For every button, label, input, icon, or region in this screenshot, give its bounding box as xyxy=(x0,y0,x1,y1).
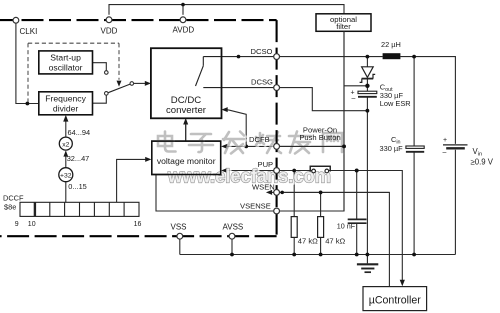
wire Vout rail redraw over watermark xyxy=(186,31,403,211)
svg-text:10: 10 xyxy=(28,221,36,228)
junction R2 on ground bus xyxy=(319,253,323,257)
svg-text:oscillator: oscillator xyxy=(49,63,83,73)
arrow register into voltage monitor xyxy=(145,157,151,162)
svg-text:converter: converter xyxy=(166,105,207,116)
arrow DCFB into voltage monitor xyxy=(221,144,227,149)
wire start-up oscillator output to switch throw xyxy=(93,63,107,71)
arrowheads xyxy=(63,81,405,287)
wire PUP internal to voltage monitor xyxy=(227,170,274,172)
svg-text:≥0.9 V: ≥0.9 V xyxy=(471,158,494,167)
wire Cout bottom to ground bus xyxy=(366,97,368,255)
svg-text:www.elecfans.com: www.elecfans.com xyxy=(167,165,331,187)
svg-text:x2: x2 xyxy=(62,141,69,148)
junction PUP with R1 xyxy=(292,169,296,173)
svg-text:divider: divider xyxy=(53,103,78,113)
wire x2 to frequency divider (up arrow) xyxy=(65,120,67,137)
wire DCSO from internal switch to inductor xyxy=(203,56,382,58)
wire voltage monitor to DC/DC redraw xyxy=(185,124,187,141)
svg-text:Push Button: Push Button xyxy=(299,133,340,142)
svg-text:10 nF: 10 nF xyxy=(337,221,356,230)
svg-text:DCSG: DCSG xyxy=(251,78,273,87)
pin VDD xyxy=(106,17,112,23)
svg-text:VDD: VDD xyxy=(101,26,118,35)
block optional filter xyxy=(316,14,371,32)
register DCCF $8e xyxy=(20,202,139,216)
junction CLKI wire with dashed box edge xyxy=(26,102,30,106)
wire AVSS pin drop xyxy=(231,239,233,255)
voltage monitor border redraw xyxy=(152,141,221,174)
wire VSENSE line redraw xyxy=(280,210,344,212)
wire CLKI down and into frequency divider xyxy=(16,23,39,103)
arrow WSEN stub xyxy=(266,190,272,195)
wire switch pole to DC/DC converter input xyxy=(134,82,147,84)
svg-text:32...47: 32...47 xyxy=(67,154,90,163)
junction DCSO node with diode xyxy=(366,55,370,59)
adder +32 xyxy=(59,168,73,182)
diode D1 (Schottky) xyxy=(360,67,376,83)
arrow into DC/DC left xyxy=(145,81,151,86)
inner dashed control box around oscillator blocks xyxy=(28,43,119,102)
svg-text:+: + xyxy=(443,137,447,144)
wire 10nF top to PUP line xyxy=(356,171,358,220)
wire DCFB external redraw xyxy=(280,145,344,147)
svg-text:CLKI: CLKI xyxy=(20,27,38,36)
wire WSEN line redraw xyxy=(280,191,390,193)
svg-text:VSENSE: VSENSE xyxy=(240,201,271,210)
resistor R2 47k xyxy=(318,217,324,238)
inductor L1 22uH xyxy=(383,53,401,59)
svg-text:DCSO: DCSO xyxy=(251,47,273,56)
block voltage monitor xyxy=(152,141,221,174)
svg-text:16: 16 xyxy=(134,221,142,228)
pin PUP xyxy=(274,168,280,174)
junction dots redraw xyxy=(281,145,359,195)
switch S2 clock select throws and pole xyxy=(105,71,134,96)
svg-text:WSEN: WSEN xyxy=(252,183,275,192)
watermark url xyxy=(167,165,332,188)
junction DCFB with Vout rail xyxy=(342,145,346,149)
junction DCSG with Cout bottom xyxy=(366,109,370,113)
ground xyxy=(357,255,378,273)
arrow into multiplier x2 xyxy=(63,151,68,157)
wire WSEN external to uController xyxy=(280,192,390,286)
svg-text:+32: +32 xyxy=(60,172,72,179)
wire resistor R2 top to WSEN line xyxy=(320,192,322,216)
svg-text:–: – xyxy=(352,95,356,102)
block DC/DC converter U1 xyxy=(151,48,222,118)
pin DCSO xyxy=(274,54,280,60)
internal switch of DC/DC xyxy=(196,57,221,88)
resistor R1 47k xyxy=(291,217,297,238)
capacitor Cout 330uF Low ESR xyxy=(358,91,377,97)
wire Cin bottom to ground bus xyxy=(413,152,415,255)
svg-text:filter: filter xyxy=(336,22,351,31)
pin AVSS xyxy=(229,233,235,239)
wire internal switch lever (open) xyxy=(196,66,204,86)
svg-text:Frequency: Frequency xyxy=(45,93,86,103)
battery Vin xyxy=(443,145,468,148)
wire VDD riser to top rail xyxy=(109,5,344,15)
wire optional filter output down to VSENSE (Vout rail) xyxy=(280,31,344,211)
junction Cin on ground bus xyxy=(412,253,416,257)
svg-text:Start-up: Start-up xyxy=(50,53,81,63)
pin AVDD xyxy=(180,17,186,23)
svg-text:47 kΩ: 47 kΩ xyxy=(298,236,318,245)
wire +32 to x2 xyxy=(65,152,67,168)
junction Vout node at diode cathode xyxy=(365,84,369,88)
wire diode cathode to Cout top xyxy=(366,79,368,91)
svg-text:47 kΩ: 47 kΩ xyxy=(325,236,345,245)
capacitor 10nF xyxy=(348,219,367,223)
junction AVDD on VDD rail xyxy=(181,3,185,7)
pin circles xyxy=(13,17,280,239)
junction 10nF on ground bus xyxy=(355,253,359,257)
svg-text:AVDD: AVDD xyxy=(173,25,195,34)
junction PUP with 10nF xyxy=(355,169,359,173)
junction R1 on ground bus xyxy=(292,253,296,257)
push button contacts redraw xyxy=(312,169,329,173)
block uController xyxy=(363,287,427,311)
pin VSENSE xyxy=(274,208,280,214)
pin WSEN xyxy=(274,190,280,196)
arrow control dashed to switch xyxy=(117,81,122,87)
wire AVDD riser xyxy=(182,5,184,15)
junction on DCSO line xyxy=(237,55,241,59)
arrow DCFB feedback into DC/DC right xyxy=(222,107,228,112)
wire DCFB feedback tap to DC/DC converter xyxy=(226,110,246,147)
svg-text:AVSS: AVSS xyxy=(223,222,244,231)
svg-text:PUP: PUP xyxy=(258,160,274,169)
wire VSENSE internal to voltage monitor xyxy=(156,175,274,212)
junction DCFB feedback tap xyxy=(244,145,248,149)
arrow PUP line into uController xyxy=(400,280,405,286)
wire ground bus xyxy=(180,254,456,256)
svg-text:DCCF: DCCF xyxy=(3,193,24,202)
wire DCCF register to voltage monitor xyxy=(117,159,148,202)
junction AVSS on ground bus xyxy=(230,253,234,257)
svg-text:DCFB: DCFB xyxy=(249,135,270,144)
wire DCFB internal to voltage monitor xyxy=(227,145,274,147)
junction on WSEN line xyxy=(281,191,284,194)
wire Vout rail to diode cathode node xyxy=(344,85,367,87)
arrow PUP into voltage monitor xyxy=(221,168,227,173)
capacitor Cin 330uF xyxy=(406,146,424,152)
wire internal switch stub in DC/DC xyxy=(202,57,204,66)
pin VSS xyxy=(177,233,183,239)
junction DCSG line on ground bus xyxy=(366,253,370,257)
block frequency divider xyxy=(39,92,93,115)
svg-text:$8e: $8e xyxy=(4,203,16,212)
wire DCSG from internal switch to pin and outside routing xyxy=(203,88,367,111)
wire diode branch from DCSO node down xyxy=(366,57,368,67)
junction inductor output with Cin xyxy=(412,55,416,59)
wire resistor R1 bottom to ground bus xyxy=(293,237,295,254)
wire resistor R1 top to PUP line xyxy=(293,171,295,217)
wire inductor to battery node xyxy=(400,57,455,144)
wire voltage monitor to DC/DC converter (up arrow) xyxy=(185,123,187,142)
svg-text:9: 9 xyxy=(15,221,19,228)
arrow into frequency divider xyxy=(63,115,68,122)
svg-text:µController: µController xyxy=(369,294,421,306)
wire PUP line redraw xyxy=(280,170,312,172)
pin CLKI xyxy=(13,17,19,23)
svg-text:64...94: 64...94 xyxy=(68,128,91,137)
push button S1 (Power-On) xyxy=(310,166,330,173)
watermark chinese characters xyxy=(158,132,343,155)
wire battery minus to ground bus corner xyxy=(454,150,456,255)
svg-text:VSS: VSS xyxy=(171,222,187,231)
wire push button to uController corner xyxy=(329,171,403,282)
svg-text:330 µF: 330 µF xyxy=(380,144,404,153)
block start-up oscillator xyxy=(39,51,93,74)
wire VSS pin drop xyxy=(179,239,181,255)
wire Cin top tap xyxy=(413,57,415,146)
svg-text:22 µH: 22 µH xyxy=(381,40,401,49)
pin DCSG xyxy=(274,85,280,91)
pin DCFB xyxy=(274,144,280,150)
push button S1 actuator redraw xyxy=(310,166,330,171)
arrow voltage monitor into DC/DC bottom xyxy=(183,118,188,125)
svg-text:Low ESR: Low ESR xyxy=(380,99,411,108)
wire register to +32 xyxy=(65,182,67,202)
wire WSEN input stub xyxy=(272,191,274,193)
svg-text:0...15: 0...15 xyxy=(68,182,87,191)
wire PUP external to push button xyxy=(280,170,312,172)
wire resistor R2 bottom to ground bus xyxy=(320,237,322,254)
chip boundary dashed border xyxy=(0,20,277,236)
wire 10nF bottom to ground bus xyxy=(356,224,358,255)
svg-text:–: – xyxy=(443,149,447,156)
multiplier x2 xyxy=(59,137,72,150)
junction WSEN with R2 xyxy=(319,191,323,195)
wire DCFB external to Vout rail xyxy=(280,145,344,147)
wire frequency divider output to switch throw xyxy=(93,95,107,103)
